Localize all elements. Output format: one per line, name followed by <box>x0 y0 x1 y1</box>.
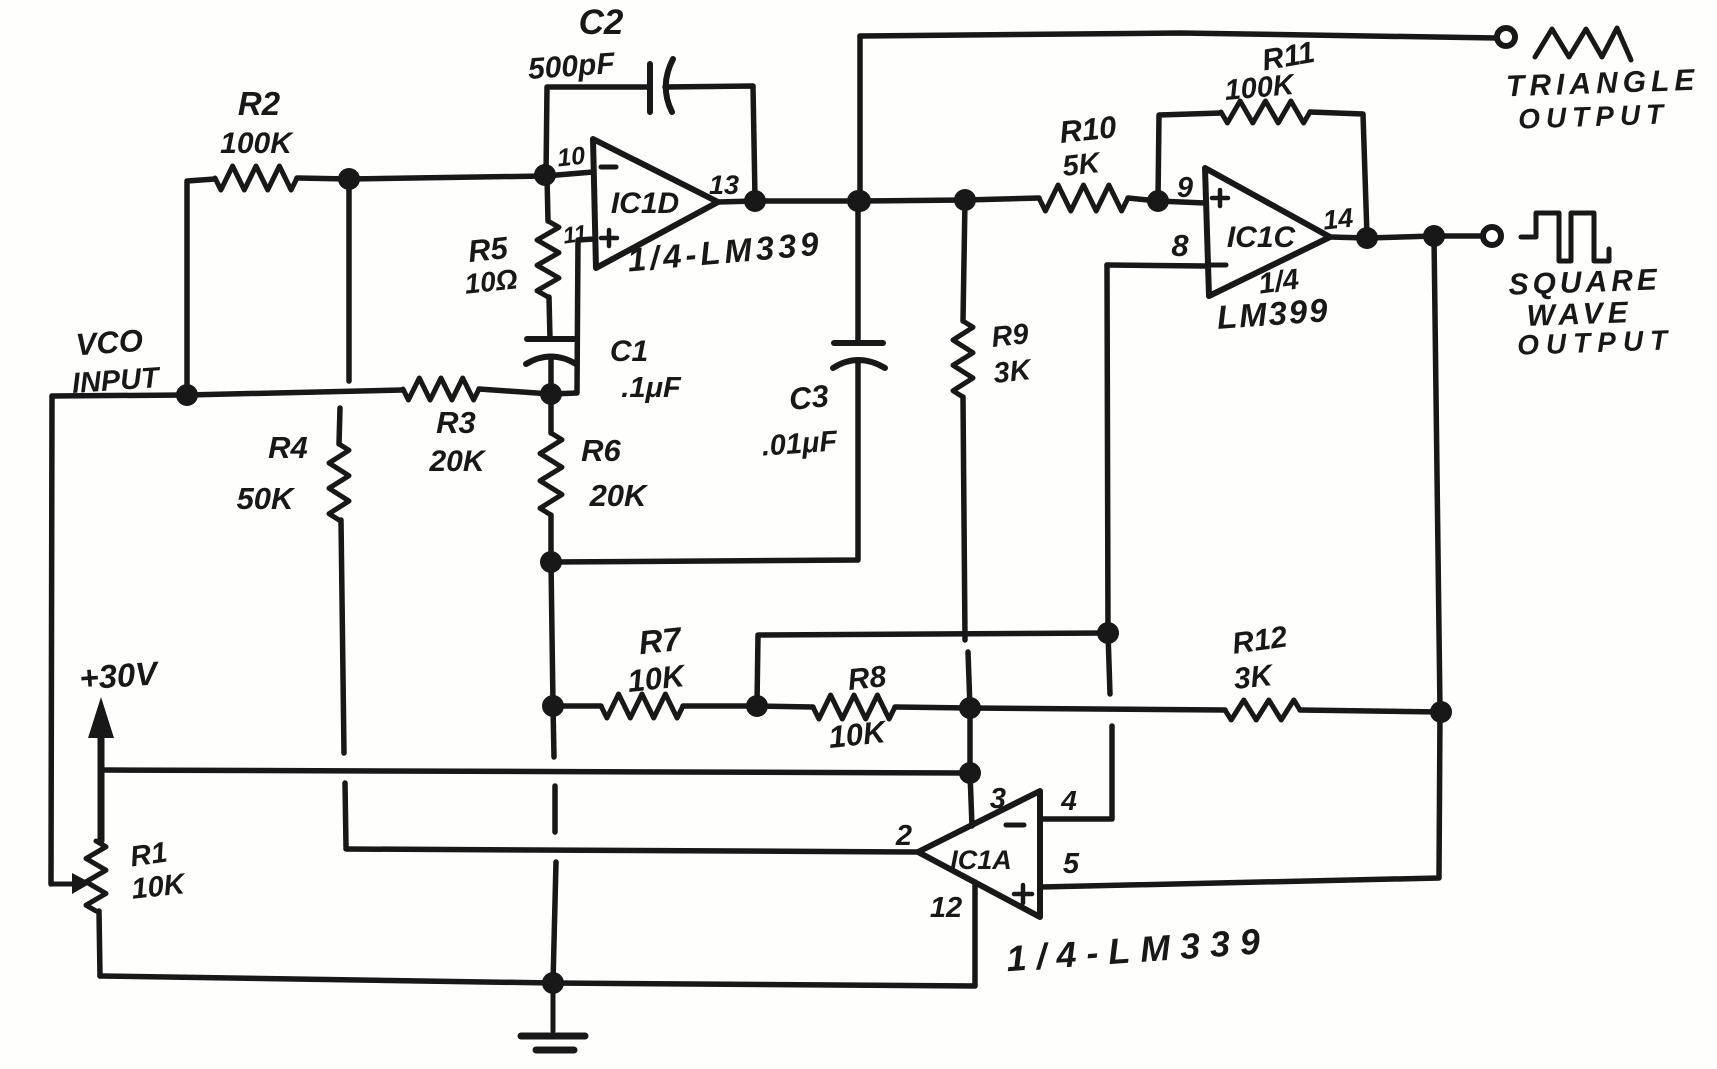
resistor R10 5K <box>1039 109 1128 211</box>
svg-text:R7: R7 <box>637 620 684 661</box>
svg-text:R1: R1 <box>128 837 169 874</box>
node: VCO input junction <box>176 384 198 406</box>
node: ground junction <box>542 972 564 994</box>
svg-text:C2: C2 <box>579 3 624 42</box>
op-amp U IC1A (1/4 LM339 comparator) <box>918 791 1040 917</box>
wire: IC1A output line (pin 2) <box>346 849 918 852</box>
wire: +30V line to pin 3 node <box>103 770 970 773</box>
svg-text:OUTPUT: OUTPUT <box>1518 98 1670 134</box>
wire: pin13 node up to triangle output line <box>857 36 863 201</box>
wire: R10 to IC1C pin 9 <box>1128 198 1205 203</box>
pin 4 label <box>1060 785 1077 816</box>
node: R12/pin5 junction <box>1430 701 1452 723</box>
svg-text:50K: 50K <box>237 481 296 516</box>
svg-text:IC1A: IC1A <box>950 845 1012 875</box>
svg-text:500pF: 500pF <box>527 47 616 86</box>
svg-text:10K: 10K <box>130 868 188 906</box>
svg-text:10K: 10K <box>827 714 890 755</box>
svg-text:5: 5 <box>1063 848 1080 880</box>
pin 5 label <box>1063 848 1080 880</box>
node: pin 9 junction <box>1147 190 1169 212</box>
wire: pin 5 return line <box>1041 712 1440 887</box>
pin 11 label <box>561 220 588 249</box>
wire: R9 lower lead (crosses bypass line) <box>963 397 965 640</box>
node: pin 13 junction <box>744 190 766 212</box>
wire: R2 right to IC1D pin 10 <box>297 172 593 179</box>
wire: IC1A pin 12 drop to ground line <box>972 882 978 985</box>
svg-text:3: 3 <box>990 783 1006 815</box>
resistor R12 3K <box>1225 620 1300 720</box>
pin 9 label <box>1177 172 1193 204</box>
node: IC1D output / triangle out junction <box>849 190 871 212</box>
wire: triangle output line (top) <box>860 33 1497 38</box>
wire: R5 top lead <box>547 176 548 221</box>
node: C1/R6/pin11 junction <box>540 383 562 405</box>
svg-text:R6: R6 <box>581 433 621 468</box>
svg-text:C3: C3 <box>787 378 830 417</box>
svg-text:SQUARE: SQUARE <box>1508 263 1661 301</box>
wire: R2 left lead + left drop to VCO node <box>187 179 215 395</box>
capacitor C1 .1uF <box>526 335 682 404</box>
svg-text:4: 4 <box>1060 785 1077 816</box>
resistor R8 10K <box>813 660 895 755</box>
capacitor C3 .01uF <box>761 343 885 463</box>
node: square wave output junction <box>1423 225 1445 247</box>
svg-text:+30V: +30V <box>78 654 161 697</box>
wire: pin 8 drop to bypass junction <box>1107 265 1110 694</box>
pin 3 label <box>990 783 1006 815</box>
svg-text:13: 13 <box>709 170 739 200</box>
wire: C2 feedback loop left/top <box>546 87 648 176</box>
node: R6 riser / R7 junction <box>542 695 564 717</box>
label: +30V <box>78 654 161 697</box>
svg-text:VCO: VCO <box>75 323 144 363</box>
svg-text:11: 11 <box>561 220 588 249</box>
pin 8 label <box>1171 228 1189 263</box>
svg-text:R3: R3 <box>436 405 476 440</box>
svg-text:3K: 3K <box>1232 659 1276 696</box>
label: VCO INPUT <box>71 323 162 400</box>
waveform glyph: triangle wave <box>1535 28 1631 60</box>
wire: R11 loop right side to output <box>1310 112 1367 236</box>
svg-text:R9: R9 <box>990 318 1030 354</box>
svg-text:TRIANGLE: TRIANGLE <box>1505 64 1699 104</box>
svg-text:10Ω: 10Ω <box>463 263 519 299</box>
label: LM399 (IC1C) <box>1216 291 1331 336</box>
terminal: square wave output <box>1483 227 1501 245</box>
svg-text:20K: 20K <box>428 445 486 478</box>
resistor R6 20K <box>540 399 649 515</box>
label: TRIANGLE OUTPUT <box>1505 64 1699 135</box>
svg-text:10K: 10K <box>626 658 689 699</box>
wire: C2 feedback loop right side to pin 13 <box>665 86 755 198</box>
wire: R4 to IC1A output corner <box>345 783 346 847</box>
label: SQUARE WAVE OUTPUT <box>1508 263 1675 360</box>
svg-text:.01μF: .01μF <box>761 425 840 462</box>
svg-text:8: 8 <box>1171 228 1189 263</box>
pin 2 label <box>895 820 912 852</box>
wire: VCO input drop to R1 wiper <box>51 396 52 884</box>
svg-text:.1μF: .1μF <box>621 372 682 404</box>
svg-text:10: 10 <box>556 142 587 173</box>
resistor R11 100K <box>1221 36 1317 123</box>
node: R11/output junction <box>1356 227 1378 249</box>
pin 10 label <box>556 142 587 173</box>
resistor R4 50K <box>237 408 349 520</box>
wire: R11 loop left side <box>1158 113 1221 201</box>
svg-text:9: 9 <box>1177 172 1193 204</box>
svg-text:100K: 100K <box>220 127 294 160</box>
svg-text:IC1D: IC1D <box>611 187 679 220</box>
svg-text:OUTPUT: OUTPUT <box>1517 324 1675 360</box>
wire: VCO input line <box>52 390 403 396</box>
wire: ground riser mid segment (between crossings) <box>552 786 558 832</box>
wire: pin 4 riser (below gap) <box>1041 726 1112 819</box>
wire: C1 bottom lead <box>548 358 554 394</box>
svg-text:R2: R2 <box>238 85 281 122</box>
svg-text:100K: 100K <box>1223 69 1297 107</box>
wire: IC1C output row <box>1330 236 1483 238</box>
resistor R7 10K <box>601 620 689 718</box>
node: R8/R9 junction <box>959 697 981 719</box>
wire: R7 left lead <box>553 703 601 709</box>
svg-text:3K: 3K <box>992 354 1034 390</box>
svg-text:R10: R10 <box>1058 109 1118 150</box>
label: 1/4-LM339 (IC1D) <box>626 225 824 279</box>
wire: pin 11 riser <box>551 239 594 394</box>
node: R2/R4 junction <box>338 168 360 190</box>
potentiometer R1 10K <box>52 837 188 911</box>
label: 1/4-LM339 (IC1A) <box>1005 920 1271 979</box>
node: C3 top junction <box>847 190 869 212</box>
resistor R9 3K <box>953 200 1034 397</box>
node: IC1D inverting input junction <box>534 164 556 186</box>
wire: R1 bottom lead <box>99 911 100 976</box>
wire: ground riser lower segment <box>553 862 556 983</box>
resistor R5 10ohm <box>463 221 559 300</box>
ground <box>521 983 585 1050</box>
pin 12 label <box>930 892 962 924</box>
wire: R7 node down toward ground (gap at +30V line) <box>553 706 554 757</box>
svg-text:12: 12 <box>930 892 962 924</box>
waveform glyph: square wave <box>1521 213 1609 261</box>
node: pin8/pin4/R7 bypass junction <box>1097 622 1119 644</box>
wire: R8 to R12 <box>895 707 1225 710</box>
wire: R6 bottom lead <box>548 515 554 561</box>
wire: R4 lower lead <box>341 520 344 753</box>
node: R9 top junction <box>954 189 976 211</box>
wire: R3 right to C1/R6 node <box>479 389 551 394</box>
svg-text:5K: 5K <box>1061 147 1103 183</box>
svg-text:R4: R4 <box>268 430 308 465</box>
node: R6/C3 junction <box>540 551 562 573</box>
pin 13 label <box>709 170 739 200</box>
power arrow +30V <box>88 697 114 841</box>
wire: R5 to C1 <box>549 297 550 339</box>
svg-text:2: 2 <box>895 820 912 852</box>
capacitor C2 <box>527 3 673 112</box>
svg-text:R5: R5 <box>466 230 510 269</box>
op-amp U IC1C (1/4 LM339 comparator) <box>1205 168 1330 296</box>
svg-text:14: 14 <box>1322 203 1355 236</box>
wire: C3 top lead <box>855 201 861 342</box>
wire: C3 bottom to R6 node <box>551 360 858 562</box>
wire: R9 node riser to IC1A pin 3 <box>968 652 972 826</box>
wire: R7/R8 bypass line <box>757 633 1108 705</box>
svg-text:C1: C1 <box>610 335 648 368</box>
label: 1/4 (IC1C) <box>1257 263 1301 300</box>
wire: IC1D output row (pin 13 to R10) <box>718 198 1039 202</box>
svg-text:20K: 20K <box>589 478 649 513</box>
wire: R4 upper lead from R2 junction <box>346 184 352 381</box>
svg-text:LM399: LM399 <box>1216 291 1331 336</box>
terminal: triangle output <box>1497 28 1515 46</box>
pin 14 label <box>1322 203 1355 236</box>
wire: IC1C pin 8 stub <box>1107 265 1205 266</box>
wire: R12 right lead <box>1300 710 1441 712</box>
svg-text:R8: R8 <box>846 660 888 697</box>
resistor R2 100K <box>215 85 297 190</box>
wire: R6 node down to R7 node <box>551 562 553 705</box>
resistor R3 20K <box>403 378 487 478</box>
svg-text:IC1C: IC1C <box>1227 221 1297 254</box>
wire: square node down to R12 right junction <box>1434 236 1440 710</box>
node: +30V line / pin 3 junction <box>959 762 981 784</box>
wire: R7 to R8 <box>683 706 813 707</box>
op-amp U IC1D (1/4 LM339 comparator) <box>593 139 718 268</box>
node: R7/R8 junction <box>746 695 768 717</box>
wire: ground line (bottom) <box>100 976 975 986</box>
